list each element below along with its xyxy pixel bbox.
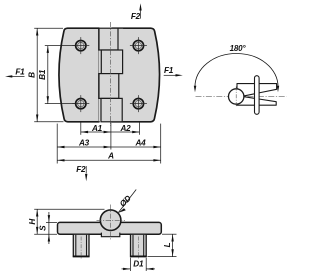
- knuckle zone base: [99, 29, 124, 121]
- svg-text:F1: F1: [164, 66, 174, 75]
- knuckle section 4: [101, 98, 122, 121]
- hole top-right: [130, 37, 147, 54]
- svg-text:F2: F2: [131, 12, 141, 21]
- barrel centerline vertical: [235, 87, 237, 107]
- svg-text:B1: B1: [38, 69, 47, 80]
- force arrow F2 top: [131, 3, 142, 21]
- svg-text:D1: D1: [133, 260, 144, 269]
- svg-text:L: L: [163, 242, 172, 247]
- dimension A: [57, 159, 161, 161]
- dimension D1: [122, 258, 156, 271]
- hinge barrel (side): [229, 89, 244, 104]
- stud left: [73, 234, 90, 259]
- knuckle section 2: [101, 50, 122, 74]
- bottom leaf: [237, 97, 276, 106]
- label OD leader: [118, 190, 136, 213]
- dimension L: [148, 234, 177, 256]
- svg-text:F1: F1: [15, 68, 25, 77]
- pin through leaves: [255, 76, 260, 115]
- svg-text:B: B: [27, 72, 36, 78]
- dimension A3: [57, 146, 111, 148]
- hole bottom-right: [130, 95, 147, 112]
- svg-text:S: S: [38, 225, 47, 231]
- force arrow F2 bottom: [76, 165, 87, 181]
- dimension A4: [111, 146, 161, 148]
- svg-text:A2: A2: [119, 124, 131, 133]
- hole bottom-left: [72, 95, 89, 112]
- force arrow F1 left: [5, 68, 25, 78]
- barrel circle: [100, 210, 121, 231]
- bottom dimension extension lines: [57, 123, 161, 164]
- knuckle foot below plate: [101, 231, 119, 237]
- axis centerline: [196, 95, 287, 97]
- leaf plate bar: [58, 222, 162, 234]
- hinge left leaf: [59, 28, 99, 122]
- knuckle section 1: [99, 28, 118, 50]
- swing arc 180deg: [195, 54, 278, 87]
- svg-text:A3: A3: [78, 139, 90, 148]
- dimension A1: [81, 131, 111, 133]
- dimension S: [46, 212, 57, 244]
- dimension A2: [111, 131, 140, 133]
- barrel centerlines: [110, 205, 112, 241]
- svg-text:180°: 180°: [230, 44, 247, 53]
- hinge right leaf: [112, 28, 160, 122]
- stud right: [130, 234, 147, 259]
- svg-text:A4: A4: [134, 139, 146, 148]
- centerline hinge axis: [110, 22, 112, 126]
- knuckle section 3: [99, 74, 119, 99]
- svg-text:F2: F2: [76, 165, 86, 174]
- dimension B: [34, 28, 63, 122]
- top leaf (open position): [237, 84, 277, 96]
- dimension H: [34, 209, 104, 234]
- force arrow F1 right: [164, 66, 183, 76]
- dimension B1: [45, 46, 76, 104]
- svg-text:A1: A1: [91, 124, 103, 133]
- hole top-left: [72, 37, 89, 54]
- svg-text:A: A: [107, 152, 114, 161]
